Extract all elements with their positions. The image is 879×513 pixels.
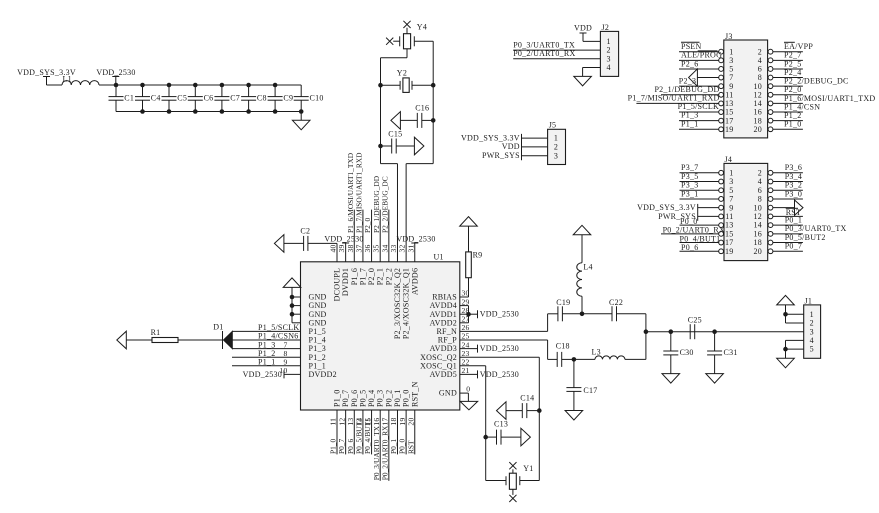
svg-text:J3: J3 <box>725 32 733 41</box>
power port VDD_2530 pin21 <box>460 373 478 375</box>
junction <box>572 357 577 362</box>
svg-text:20: 20 <box>406 418 415 426</box>
svg-text:2: 2 <box>810 319 814 328</box>
svg-text:19: 19 <box>725 125 734 134</box>
svg-text:5: 5 <box>729 186 733 195</box>
svg-text:6: 6 <box>758 186 762 195</box>
wire <box>468 226 470 252</box>
svg-text:P2_2: P2_2 <box>384 268 393 285</box>
connector J5 <box>548 129 566 164</box>
svg-text:VDD_SYS_3.3V: VDD_SYS_3.3V <box>637 203 696 212</box>
wire J3 pin 6 <box>773 68 803 70</box>
wire P1_2 <box>232 356 301 358</box>
svg-text:DVDD2: DVDD2 <box>309 370 337 379</box>
svg-text:L3: L3 <box>592 347 601 356</box>
junction <box>783 312 788 317</box>
wire J1 pins 1-2 <box>786 313 804 315</box>
svg-text:12: 12 <box>754 212 763 221</box>
svg-text:P0_1: P0_1 <box>785 216 802 225</box>
svg-text:P0_6: P0_6 <box>681 243 698 252</box>
wire <box>284 242 304 244</box>
svg-text:VDD_2530: VDD_2530 <box>480 310 519 319</box>
wire J4 pin 6 <box>773 189 803 191</box>
junction <box>644 329 649 334</box>
svg-text:P2_4/XOSC32K_Q1: P2_4/XOSC32K_Q1 <box>402 268 411 339</box>
svg-text:21: 21 <box>462 366 470 375</box>
svg-text:20: 20 <box>754 125 763 134</box>
wire <box>485 437 487 480</box>
wire J3 pin 18 <box>773 120 803 122</box>
svg-text:P2_1: P2_1 <box>376 268 385 285</box>
svg-text:20: 20 <box>754 247 763 256</box>
svg-text:P1_0: P1_0 <box>329 438 338 454</box>
wire <box>178 339 223 341</box>
ground <box>565 411 583 421</box>
junction <box>466 312 471 317</box>
svg-text:VDD_2530: VDD_2530 <box>96 68 135 77</box>
svg-text:P0_2/UART0_RX: P0_2/UART0_RX <box>663 226 725 235</box>
svg-text:31: 31 <box>406 244 415 252</box>
svg-text:VDD_SYS_3.3V: VDD_SYS_3.3V <box>461 133 520 142</box>
svg-text:J5: J5 <box>549 120 557 129</box>
svg-text:16: 16 <box>754 229 763 238</box>
svg-text:P0_6: P0_6 <box>346 438 355 454</box>
svg-text:P1_1: P1_1 <box>681 119 698 128</box>
svg-text:15: 15 <box>725 229 734 238</box>
svg-text:C10: C10 <box>310 94 324 103</box>
capacitor C30 <box>670 332 672 351</box>
svg-text:P1_7/MISO/UART1_RXD: P1_7/MISO/UART1_RXD <box>355 152 364 233</box>
ground pin0 <box>460 392 469 394</box>
svg-text:P0_4/BUT1: P0_4/BUT1 <box>680 234 721 243</box>
svg-text:33: 33 <box>389 244 398 252</box>
svg-text:8: 8 <box>758 195 762 204</box>
capacitor C31 <box>714 332 716 351</box>
wire J4 pin 5 <box>680 189 719 191</box>
svg-text:4: 4 <box>810 336 814 345</box>
svg-text:32: 32 <box>398 244 407 252</box>
svg-text:P0_4: P0_4 <box>367 390 376 407</box>
wire J3 pin 20 <box>773 128 803 130</box>
wire AVDD bus <box>460 305 469 307</box>
svg-text:VDD_2530: VDD_2530 <box>396 234 435 243</box>
ground <box>300 112 302 121</box>
wire J3 pin 15 <box>679 111 719 113</box>
svg-text:C18: C18 <box>556 342 570 351</box>
capacitor C10 <box>300 85 302 97</box>
svg-text:VDD_2530: VDD_2530 <box>480 344 519 353</box>
svg-text:3: 3 <box>606 54 610 63</box>
wire J3 pin 17 <box>679 120 719 122</box>
svg-text:P1_6: P1_6 <box>350 268 359 285</box>
wire to J1 <box>715 331 804 333</box>
svg-text:DCOUPL: DCOUPL <box>333 268 342 302</box>
svg-text:39: 39 <box>337 244 346 252</box>
ground <box>583 67 601 69</box>
svg-text:19: 19 <box>725 247 734 256</box>
wire J4 pin 4 <box>773 181 803 183</box>
wire P1_6/MOSI/UART1_TXD <box>353 210 355 262</box>
svg-text:R1: R1 <box>151 328 161 337</box>
svg-text:P3_3: P3_3 <box>681 181 698 190</box>
ground <box>573 225 591 235</box>
svg-text:P1_7: P1_7 <box>358 268 367 285</box>
IC U1 body <box>301 262 460 410</box>
svg-text:2: 2 <box>606 46 610 55</box>
wire <box>126 339 152 341</box>
svg-text:3: 3 <box>554 151 558 160</box>
wire J4 pin 8 <box>773 198 803 200</box>
svg-text:P2_3/XOSC32K_Q2: P2_3/XOSC32K_Q2 <box>393 268 402 339</box>
svg-text:P0_7: P0_7 <box>337 438 346 454</box>
svg-text:C30: C30 <box>680 348 694 357</box>
power port VDD_2530 pin28 <box>469 313 478 315</box>
capacitor C5 <box>168 85 170 97</box>
svg-text:C31: C31 <box>724 348 738 357</box>
svg-text:C15: C15 <box>388 130 402 139</box>
svg-text:P1_4/CSN6: P1_4/CSN6 <box>258 332 298 341</box>
wire J3 pin 10 <box>773 85 803 87</box>
power port VDD_SYS_3.3V <box>697 204 699 221</box>
svg-text:P0_0: P0_0 <box>402 390 411 407</box>
svg-text:Y2: Y2 <box>397 68 407 77</box>
wire XOSC_Q1 <box>460 365 486 367</box>
svg-text:C22: C22 <box>609 298 623 307</box>
svg-text:P1_0: P1_0 <box>333 390 342 407</box>
svg-text:11: 11 <box>725 212 733 221</box>
wire J4 pin 3 <box>680 181 719 183</box>
wire J3 pin 14 <box>773 102 803 104</box>
svg-text:GND: GND <box>439 389 457 398</box>
junction <box>431 118 436 123</box>
svg-text:4: 4 <box>606 63 610 72</box>
svg-text:P0_3/UART0_TX: P0_3/UART0_TX <box>513 41 575 50</box>
power port VDD_2530 pin24 <box>460 348 478 350</box>
node arrow <box>117 331 127 349</box>
junction <box>246 83 251 88</box>
wire J4 pin 2 <box>773 172 803 174</box>
svg-text:P0_0: P0_0 <box>680 217 697 226</box>
wire J3 pin 3 <box>679 59 719 61</box>
svg-text:VDD: VDD <box>574 24 592 33</box>
junction <box>220 83 225 88</box>
node arrow pin10 <box>795 200 804 215</box>
capacitor C9 <box>274 85 276 97</box>
wire <box>645 314 647 360</box>
wire right rail <box>432 41 434 163</box>
svg-text:37: 37 <box>354 244 363 252</box>
junction <box>669 329 674 334</box>
wire P1_5/SCLK <box>232 330 301 332</box>
svg-text:3: 3 <box>810 327 814 336</box>
wire P1_7/MISO/UART1_RXD <box>362 210 364 262</box>
svg-text:DVDD1: DVDD1 <box>341 268 350 296</box>
svg-text:PWR_SYS: PWR_SYS <box>482 151 520 160</box>
svg-text:C4: C4 <box>151 94 161 103</box>
wire J3 pin 9 <box>679 85 719 87</box>
wire gnd bus <box>291 287 293 322</box>
svg-text:Y1: Y1 <box>523 464 533 473</box>
wire <box>232 339 300 341</box>
svg-text:2: 2 <box>554 143 558 152</box>
svg-text:P0_1: P0_1 <box>389 438 398 454</box>
junction <box>378 83 383 88</box>
ground <box>777 295 795 305</box>
wire J4 pin 14 <box>773 224 803 226</box>
wire J4 pin 10 <box>773 207 795 209</box>
wire J4 pin 12 <box>773 215 803 217</box>
node arrow P2_3 <box>689 69 698 86</box>
junction <box>299 109 304 114</box>
svg-text:P0_6: P0_6 <box>350 390 359 407</box>
wire J4 pin 19 <box>680 250 719 252</box>
svg-text:P0_2/UART0_RX: P0_2/UART0_RX <box>513 49 575 58</box>
wire J3 pin 12 <box>773 94 803 96</box>
wire J4 pin 1 <box>680 172 719 174</box>
svg-text:P3_0: P3_0 <box>785 189 802 198</box>
svg-text:P3_4: P3_4 <box>785 172 802 181</box>
svg-text:C19: C19 <box>556 298 570 307</box>
junction <box>290 295 295 300</box>
svg-text:VDD: VDD <box>502 142 520 151</box>
svg-text:D1: D1 <box>213 323 223 332</box>
svg-text:AVDD6: AVDD6 <box>410 268 419 295</box>
svg-text:P3_2: P3_2 <box>785 181 802 190</box>
svg-text:C1: C1 <box>124 94 134 103</box>
svg-text:VDD_2530: VDD_2530 <box>324 234 363 243</box>
wire <box>562 313 582 315</box>
crystal Y4 <box>404 34 411 49</box>
wire J3 pin 2 <box>773 51 803 53</box>
wire J3 pin 7 <box>697 77 718 79</box>
junction <box>783 347 788 352</box>
junction <box>580 312 585 317</box>
svg-text:C2: C2 <box>300 227 310 236</box>
svg-text:J1: J1 <box>805 297 813 306</box>
svg-text:P2_2/DEBUG_DC: P2_2/DEBUG_DC <box>380 176 389 233</box>
svg-text:C8: C8 <box>257 94 267 103</box>
ground <box>283 278 301 288</box>
wire <box>414 40 433 42</box>
svg-text:2: 2 <box>758 168 762 177</box>
svg-text:1: 1 <box>810 310 814 319</box>
wire <box>47 84 63 86</box>
svg-text:P2_6: P2_6 <box>681 59 698 68</box>
svg-text:36: 36 <box>363 244 372 252</box>
svg-text:P1_1: P1_1 <box>258 358 275 367</box>
wire P1_1 <box>232 365 301 367</box>
svg-text:P0_1: P0_1 <box>393 390 402 407</box>
capacitor C17 <box>573 359 575 387</box>
wire J3 pin 16 <box>773 111 803 113</box>
wire J3 pin 1 <box>679 51 719 53</box>
ground <box>460 217 478 227</box>
wire J4 pin 16 <box>773 233 803 235</box>
junction <box>273 83 278 88</box>
svg-text:C13: C13 <box>494 420 508 429</box>
svg-text:1: 1 <box>729 168 733 177</box>
svg-text:9: 9 <box>729 203 733 212</box>
capacitor C4 <box>142 85 144 97</box>
svg-text:1: 1 <box>554 134 558 143</box>
svg-text:7: 7 <box>729 195 733 204</box>
wire J3 pin 19 <box>679 128 719 130</box>
wire P2_1/DEBUG_DD <box>379 210 381 262</box>
junction <box>140 83 145 88</box>
wire J4 pin 7 <box>680 198 719 200</box>
svg-text:R9: R9 <box>473 250 483 259</box>
power port VDD_2530 pin10 <box>283 370 285 378</box>
junction <box>537 408 542 413</box>
wire P2_2/DEBUG_DC <box>388 210 390 262</box>
wire J4 pin 9 <box>698 207 719 209</box>
wire XOSC_Q2 <box>460 356 540 358</box>
ground <box>662 374 680 384</box>
svg-text:14: 14 <box>754 221 763 230</box>
junction <box>712 329 717 334</box>
svg-text:C6: C6 <box>204 94 214 103</box>
svg-text:P0_5/BUT2: P0_5/BUT2 <box>785 233 826 242</box>
svg-text:38: 38 <box>346 244 355 252</box>
svg-text:P1_0: P1_0 <box>784 120 801 129</box>
svg-text:J2: J2 <box>602 23 610 32</box>
wire <box>562 358 574 360</box>
svg-text:P3_7: P3_7 <box>681 163 698 172</box>
svg-text:35: 35 <box>372 244 381 252</box>
svg-text:C14: C14 <box>520 394 534 403</box>
wire J3 pin 5 <box>679 68 719 70</box>
power port VDD_SYS_3.3V <box>521 134 523 160</box>
svg-text:J4: J4 <box>725 155 733 164</box>
svg-text:C5: C5 <box>177 94 187 103</box>
wire J4 pin 13 <box>680 224 719 226</box>
capacitor C1 <box>115 85 117 97</box>
wire node row <box>646 331 715 333</box>
wire <box>406 49 408 58</box>
connector J4 <box>724 163 768 260</box>
connector J3 <box>724 40 768 138</box>
wire J3 pin 11 <box>661 94 719 96</box>
capacitor C6 <box>194 85 196 97</box>
svg-text:Y4: Y4 <box>417 23 427 32</box>
svg-text:5: 5 <box>810 345 814 354</box>
svg-text:34: 34 <box>380 244 389 252</box>
svg-text:P0_7: P0_7 <box>341 390 350 407</box>
svg-text:P0_2/UART0_RX: P0_2/UART0_RX <box>380 425 389 480</box>
svg-text:U1: U1 <box>434 253 444 262</box>
wire P1_3 <box>232 348 301 350</box>
wire J1 pins 4-5 <box>786 339 804 341</box>
svg-text:3: 3 <box>729 177 733 186</box>
wire J3 pin 8 <box>773 77 803 79</box>
svg-text:P0_5: P0_5 <box>358 390 367 407</box>
svg-text:P0_0: P0_0 <box>398 438 407 454</box>
svg-text:P0_3/UART0_TX: P0_3/UART0_TX <box>785 224 847 233</box>
svg-text:P2_0: P2_0 <box>363 217 372 233</box>
svg-text:AVDD5: AVDD5 <box>430 370 457 379</box>
capacitor C7 <box>221 85 223 97</box>
junction <box>193 83 198 88</box>
svg-text:40: 40 <box>329 244 338 252</box>
wire J4 pin 17 <box>680 242 719 244</box>
svg-text:10: 10 <box>754 203 763 212</box>
svg-text:P0_2: P0_2 <box>384 390 393 407</box>
svg-text:P3_6: P3_6 <box>785 163 802 172</box>
wire J3 pin 13 <box>636 102 718 104</box>
wire J4 pin 11 <box>698 215 719 217</box>
node VDD_2530 junction <box>114 83 119 88</box>
wire J4 pin 15 <box>661 233 719 235</box>
svg-text:4: 4 <box>758 177 762 186</box>
wire top rail <box>116 84 301 86</box>
wire <box>381 163 398 165</box>
wire J3 pin 4 <box>773 59 803 61</box>
junction <box>167 83 172 88</box>
svg-text:P0_5/BUT2: P0_5/BUT2 <box>355 418 364 454</box>
svg-text:VDD_2530: VDD_2530 <box>243 370 282 379</box>
svg-text:RST_N: RST_N <box>410 381 419 407</box>
svg-text:P3_5: P3_5 <box>681 172 698 181</box>
connector J1 <box>804 305 821 358</box>
svg-text:P2_0: P2_0 <box>367 268 376 285</box>
svg-text:P3_1: P3_1 <box>681 189 698 198</box>
svg-text:P0_7: P0_7 <box>785 242 802 251</box>
svg-text:C7: C7 <box>230 94 240 103</box>
wire RF_P <box>460 339 548 341</box>
wire J4 pin 20 <box>773 250 803 252</box>
svg-text:C9: C9 <box>283 94 293 103</box>
svg-text:RST: RST <box>406 440 415 454</box>
svg-text:P1_6/MOSI/UART1_TXD: P1_6/MOSI/UART1_TXD <box>346 152 355 233</box>
svg-text:1: 1 <box>606 37 610 46</box>
svg-text:P0_3: P0_3 <box>376 390 385 407</box>
ground <box>777 358 795 368</box>
wire <box>99 84 116 86</box>
ground <box>274 235 284 253</box>
svg-text:C25: C25 <box>688 315 702 324</box>
wire J4 pin 18 <box>773 242 803 244</box>
junction <box>483 435 488 440</box>
svg-text:C17: C17 <box>583 386 597 395</box>
svg-text:18: 18 <box>754 238 763 247</box>
wire <box>308 242 337 244</box>
junction <box>378 144 383 149</box>
connector J2 <box>600 31 618 76</box>
svg-text:0: 0 <box>466 384 470 393</box>
wire xosc32k <box>396 164 398 262</box>
wire P2_0 <box>371 210 373 262</box>
ground <box>706 374 724 384</box>
svg-text:C16: C16 <box>415 103 429 112</box>
wire bottom pins <box>336 410 338 454</box>
wire bottom rail <box>116 111 301 113</box>
wire left rail <box>380 58 382 164</box>
svg-text:17: 17 <box>725 238 734 247</box>
wire RF_N <box>460 330 548 332</box>
resistor R9 <box>460 296 469 298</box>
capacitor C8 <box>248 85 250 97</box>
svg-text:13: 13 <box>725 221 734 230</box>
svg-text:P2_1/DEBUG_DD: P2_1/DEBUG_DD <box>372 175 381 233</box>
svg-text:L4: L4 <box>583 262 592 271</box>
